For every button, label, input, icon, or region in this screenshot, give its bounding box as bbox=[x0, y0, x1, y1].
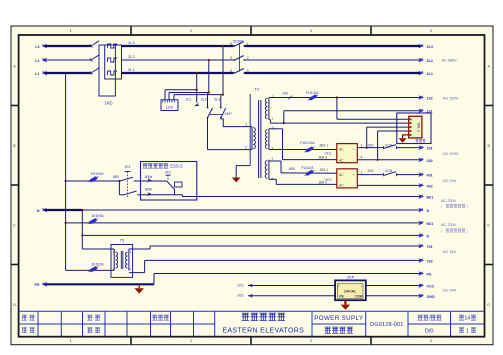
ground 2KP bbox=[344, 300, 346, 304]
wire 2L1 bbox=[122, 72, 234, 74]
svg-text:4: 4 bbox=[430, 339, 432, 343]
wire 5RL pin5 to ground bbox=[403, 134, 409, 136]
svg-text:5CM1: 5CM1 bbox=[233, 39, 244, 44]
svg-text:D: D bbox=[487, 303, 490, 307]
svg-text:FU1/2A: FU1/2A bbox=[306, 91, 319, 95]
svg-text:T5: T5 bbox=[119, 238, 124, 243]
wire PE riser bbox=[153, 274, 155, 285]
wire N thick bbox=[45, 209, 82, 211]
terminal VCC bbox=[418, 283, 424, 288]
terminal 702 bbox=[418, 258, 424, 263]
wire TC w3 bottom to VC2 AC2 bbox=[269, 178, 276, 180]
terminal 3L1 bbox=[418, 71, 424, 76]
svg-text:N01: N01 bbox=[427, 222, 434, 226]
svg-text:800b: 800b bbox=[145, 188, 153, 192]
svg-text:402: 402 bbox=[427, 184, 433, 188]
svg-text:VCC: VCC bbox=[427, 284, 435, 288]
svg-text:4: 4 bbox=[430, 29, 432, 33]
terminal L2 bbox=[42, 58, 48, 63]
svg-text:1KD/9A: 1KD/9A bbox=[91, 214, 104, 218]
svg-text:2L1: 2L1 bbox=[128, 67, 135, 72]
svg-text:AC 220V: AC 220V bbox=[441, 223, 457, 227]
wire 800a bbox=[141, 180, 167, 182]
junction 2L1 drop bbox=[196, 89, 198, 91]
svg-text:1: 1 bbox=[245, 123, 247, 127]
fuse FU1 bbox=[307, 93, 319, 101]
svg-text:880: 880 bbox=[113, 175, 119, 179]
terminal 3L3 bbox=[418, 44, 424, 49]
wire PE to right bbox=[154, 273, 420, 275]
wire T5 to 701 bbox=[129, 248, 150, 250]
svg-text:3: 3 bbox=[310, 339, 312, 343]
title text 校对 bbox=[87, 315, 92, 320]
TC secondary winding 1 bbox=[268, 98, 270, 120]
terminal GND bbox=[418, 294, 424, 299]
svg-text:3L2: 3L2 bbox=[427, 59, 433, 63]
wire 102 net to 5RL pin1 bbox=[336, 98, 338, 120]
svg-text:L3: L3 bbox=[35, 45, 39, 49]
node 100 bbox=[289, 96, 293, 100]
title text 审核 bbox=[22, 328, 27, 333]
svg-text:+: + bbox=[353, 173, 355, 177]
svg-text:DG0128-001: DG0128-001 bbox=[370, 322, 403, 328]
svg-text:2B4 3: 2B4 3 bbox=[318, 155, 327, 159]
wire drop 2L3 to 1CD bbox=[222, 46, 224, 95]
svg-text:3: 3 bbox=[310, 29, 312, 33]
svg-text:AC: AC bbox=[339, 183, 344, 187]
wire net 402 bbox=[357, 184, 420, 186]
svg-text:2L2: 2L2 bbox=[201, 97, 207, 101]
svg-text:TC: TC bbox=[254, 87, 259, 92]
svg-text:24V/AL: 24V/AL bbox=[344, 290, 357, 294]
circuit breaker 1KD bbox=[91, 41, 99, 46]
svg-text:101: 101 bbox=[237, 283, 243, 287]
connector arrow 2L1 bbox=[194, 103, 200, 106]
wire 102 into 2KP bbox=[248, 295, 335, 297]
svg-text:1KD/2A: 1KD/2A bbox=[91, 262, 104, 266]
svg-text:N: N bbox=[37, 209, 40, 213]
svg-text:401: 401 bbox=[427, 174, 433, 178]
svg-text:1CD: 1CD bbox=[166, 106, 174, 110]
wire L1 input bbox=[45, 72, 91, 74]
wire net 200 to 201 bbox=[357, 147, 383, 149]
junction 2L1 on L1 bbox=[196, 72, 198, 74]
label 悬停开关盒ESS-2 bbox=[143, 164, 148, 169]
svg-text:FU2/10A: FU2/10A bbox=[300, 141, 315, 145]
svg-text:1KP: 1KP bbox=[224, 112, 232, 116]
contact 1KP pole 2 bbox=[220, 95, 222, 107]
svg-text:201: 201 bbox=[427, 147, 433, 151]
svg-text:2: 2 bbox=[247, 56, 249, 60]
svg-text:1: 1 bbox=[70, 29, 72, 33]
terminal B01 bbox=[418, 194, 424, 199]
svg-text:3L1: 3L1 bbox=[427, 72, 433, 76]
svg-text:DC 200V: DC 200V bbox=[443, 152, 459, 156]
svg-text:2L2: 2L2 bbox=[128, 54, 135, 59]
svg-text:1: 1 bbox=[70, 339, 72, 343]
junction 880 start bbox=[65, 180, 67, 182]
svg-text:AC 380V: AC 380V bbox=[442, 59, 458, 63]
title block bbox=[19, 310, 485, 312]
svg-text:GND: GND bbox=[427, 295, 436, 299]
svg-text:AC 24V: AC 24V bbox=[443, 250, 457, 254]
svg-text:COM: COM bbox=[355, 295, 363, 299]
terminal 701 bbox=[418, 244, 424, 249]
svg-text:4: 4 bbox=[272, 147, 274, 151]
terminal 202 bbox=[418, 158, 424, 163]
svg-text:2L1: 2L1 bbox=[185, 97, 191, 101]
ground PE bbox=[138, 284, 140, 288]
svg-text:AC 220V: AC 220V bbox=[441, 199, 457, 203]
wire 3L3 bbox=[245, 45, 421, 47]
terminal 101 bbox=[418, 108, 424, 113]
svg-text:VC1: VC1 bbox=[325, 152, 332, 156]
TC screen ground wire bbox=[236, 165, 250, 167]
terminal L1 bbox=[42, 71, 48, 76]
svg-text:2B3 1: 2B3 1 bbox=[319, 143, 328, 147]
svg-text:14: 14 bbox=[465, 316, 471, 322]
junction 880 bbox=[118, 180, 120, 182]
junction 2L3 drop bbox=[222, 94, 224, 96]
title text 批准 bbox=[87, 328, 92, 333]
wire net 400 to 401 bbox=[357, 174, 383, 176]
fuse 1KD/9A on N01 bbox=[66, 222, 420, 224]
wire net 100 to 102 bbox=[269, 97, 420, 99]
svg-text:2L3: 2L3 bbox=[214, 97, 220, 101]
fuse FU2 bbox=[304, 145, 316, 153]
terminal 201 bbox=[418, 145, 424, 150]
svg-text:L2: L2 bbox=[35, 59, 39, 63]
junction 202 tap bbox=[377, 159, 379, 161]
svg-text:FU3/2A: FU3/2A bbox=[301, 166, 314, 170]
wire net 202 bbox=[357, 159, 420, 161]
module 5RL bbox=[409, 116, 422, 138]
svg-text:AC: AC bbox=[339, 148, 344, 152]
svg-text:4B8: 4B8 bbox=[289, 167, 295, 171]
svg-text:C: C bbox=[13, 223, 16, 227]
svg-text:2: 2 bbox=[190, 29, 192, 33]
wire net 202 to 5RL pin4 bbox=[377, 131, 379, 160]
terminal PE input bbox=[42, 282, 48, 287]
title text 设计 bbox=[22, 315, 27, 320]
terminal PE right bbox=[418, 271, 424, 276]
module 5RL enclosure bbox=[397, 113, 431, 144]
title text 标准化 bbox=[152, 315, 157, 320]
terminal 3L2 bbox=[418, 58, 424, 63]
box ESS-2 bbox=[141, 162, 197, 201]
wire VCC out bbox=[366, 285, 420, 287]
junction 102 branch bbox=[336, 96, 338, 98]
linkage 1KP bbox=[209, 113, 222, 115]
wire L2 input bbox=[45, 59, 91, 61]
svg-text:ESS-2: ESS-2 bbox=[170, 164, 183, 169]
svg-text:N: N bbox=[427, 209, 430, 213]
connector 1CD bbox=[161, 100, 178, 111]
svg-text:2CB: 2CB bbox=[385, 169, 393, 173]
TC secondary winding 3 bbox=[268, 160, 270, 180]
wire TC w1 bottom to net 101 bbox=[269, 119, 271, 121]
svg-text:B01: B01 bbox=[427, 196, 434, 200]
svg-text:5: 5 bbox=[272, 157, 274, 161]
svg-text:1B3 1: 1B3 1 bbox=[319, 168, 328, 172]
svg-text:1: 1 bbox=[360, 170, 362, 174]
wire TC w3 top to FU3 bbox=[269, 160, 281, 162]
svg-text:102: 102 bbox=[237, 294, 243, 298]
svg-text:): ) bbox=[467, 204, 468, 208]
svg-text:3: 3 bbox=[230, 56, 232, 60]
svg-text:2L3: 2L3 bbox=[128, 40, 135, 45]
svg-text:DC 24V: DC 24V bbox=[443, 288, 457, 292]
contact 1KP pole 1 bbox=[207, 93, 209, 108]
terminal L3 bbox=[42, 44, 48, 49]
svg-text:4: 4 bbox=[360, 156, 362, 160]
ground 5RL bbox=[399, 138, 407, 143]
svg-text:1R1/4W: 1R1/4W bbox=[91, 172, 105, 176]
svg-text:5: 5 bbox=[230, 42, 232, 46]
wire N to T5 primary bbox=[82, 248, 114, 250]
svg-text:PE: PE bbox=[339, 295, 344, 299]
svg-text:EASTERN ELEVATORS: EASTERN ELEVATORS bbox=[222, 327, 304, 334]
junction N bbox=[81, 209, 83, 211]
wire net 101 bbox=[283, 111, 285, 123]
wire 2L3 bbox=[122, 45, 234, 47]
svg-text:702: 702 bbox=[427, 259, 433, 263]
svg-text:400: 400 bbox=[367, 169, 373, 173]
wire TC w2 bottom to FU2 bbox=[269, 149, 337, 151]
svg-text:DC 24V: DC 24V bbox=[443, 179, 457, 183]
svg-text:AC: AC bbox=[339, 173, 344, 177]
svg-text:AC 220V: AC 220V bbox=[443, 97, 459, 101]
svg-text:1: 1 bbox=[466, 328, 469, 334]
svg-text:): ) bbox=[467, 229, 468, 233]
svg-text:D/0: D/0 bbox=[425, 328, 433, 334]
terminal N01 bbox=[418, 221, 424, 226]
wire T5 to 702 bbox=[129, 272, 145, 274]
svg-text:3L3: 3L3 bbox=[427, 45, 433, 49]
fuse FU3 bbox=[304, 169, 316, 177]
title text 共14页 bbox=[459, 315, 464, 320]
svg-text:N: N bbox=[427, 234, 430, 238]
svg-text:PE: PE bbox=[34, 283, 40, 287]
wire 101 into 2KP bbox=[248, 285, 335, 287]
svg-text:200: 200 bbox=[367, 143, 373, 147]
drawing title 控制电源 bbox=[325, 327, 331, 333]
company name 伊士顿电梯 bbox=[242, 313, 249, 320]
TC primary winding bbox=[240, 126, 252, 128]
TC secondary winding 2 bbox=[268, 129, 270, 150]
svg-text:2K1: 2K1 bbox=[165, 170, 171, 174]
title text 第1页 bbox=[459, 328, 464, 333]
svg-text:2: 2 bbox=[245, 146, 247, 150]
junction N branch bbox=[81, 234, 83, 236]
svg-text:6: 6 bbox=[230, 69, 232, 73]
svg-text:100: 100 bbox=[282, 92, 288, 96]
svg-text:+: + bbox=[361, 284, 363, 288]
wire drop 2L1 to 1CD bbox=[196, 73, 198, 90]
svg-text:1KD: 1KD bbox=[104, 100, 112, 105]
svg-text:202: 202 bbox=[427, 159, 433, 163]
svg-text:701: 701 bbox=[427, 245, 433, 249]
terminal 401 bbox=[418, 172, 424, 177]
terminal N input bbox=[42, 208, 48, 213]
wire to B01 bbox=[174, 190, 176, 195]
svg-text:+: + bbox=[353, 148, 355, 152]
wire 2L2 bbox=[122, 59, 234, 61]
wire 3L2 bbox=[245, 59, 421, 61]
junction N01 tap bbox=[65, 222, 67, 224]
wire 3L1 bbox=[245, 72, 421, 74]
wire GND out bbox=[366, 295, 420, 297]
svg-text:POWER SUPLY: POWER SUPLY bbox=[314, 315, 363, 322]
junction 2L2 drop bbox=[208, 91, 210, 93]
wire 800b bbox=[141, 194, 174, 196]
svg-text:D: D bbox=[13, 303, 16, 307]
wire PE thick bbox=[45, 283, 154, 285]
wire 101 net to 5RL pin2 bbox=[397, 122, 409, 124]
TC core bbox=[258, 100, 260, 178]
terminal N right bbox=[418, 208, 424, 213]
wire L3 input bbox=[45, 45, 91, 47]
wire net 200 to 5RL pin3 bbox=[366, 127, 368, 148]
svg-text:C: C bbox=[487, 223, 490, 227]
svg-text:2: 2 bbox=[190, 339, 192, 343]
wire 1KP pole2 to TC pin1 bbox=[220, 118, 222, 119]
TC screen line bbox=[249, 94, 251, 166]
svg-text:102: 102 bbox=[427, 96, 433, 100]
wire drop 2L2 to 1CD bbox=[208, 60, 210, 93]
svg-text:1K1: 1K1 bbox=[124, 165, 130, 169]
wire N branch 2 bbox=[81, 210, 83, 249]
svg-text:L1: L1 bbox=[35, 72, 39, 76]
terminal N right 2 bbox=[418, 233, 424, 238]
svg-text:VC2: VC2 bbox=[325, 178, 332, 182]
svg-text:1: 1 bbox=[272, 117, 274, 121]
wire TC w2 top to VC1 AC2 bbox=[269, 128, 283, 130]
resistor 1R1/4W bbox=[66, 180, 120, 182]
junction 101 tap bbox=[283, 122, 285, 124]
fuse 1KD/2A on T5 primary bbox=[66, 269, 115, 271]
wire N to right bbox=[82, 209, 420, 211]
label 应急灯 bbox=[416, 139, 419, 142]
terminal 102 bbox=[418, 95, 424, 100]
svg-text:3: 3 bbox=[360, 144, 362, 148]
title text 版本/次数 bbox=[418, 315, 423, 320]
wire 1KP pole1 to TC pin2 bbox=[207, 118, 209, 150]
svg-text:PE: PE bbox=[427, 273, 432, 277]
wire 880 branch down bbox=[118, 181, 120, 195]
svg-text:800a: 800a bbox=[145, 175, 153, 179]
svg-text:5RL b: 5RL b bbox=[416, 122, 420, 131]
junction 200 tap bbox=[366, 147, 368, 149]
ground TC screen bbox=[232, 178, 241, 183]
wire L1 drop bbox=[65, 73, 67, 270]
svg-text:2KP: 2KP bbox=[347, 275, 355, 280]
svg-text:AC: AC bbox=[339, 158, 344, 162]
terminal 402 bbox=[418, 183, 424, 188]
